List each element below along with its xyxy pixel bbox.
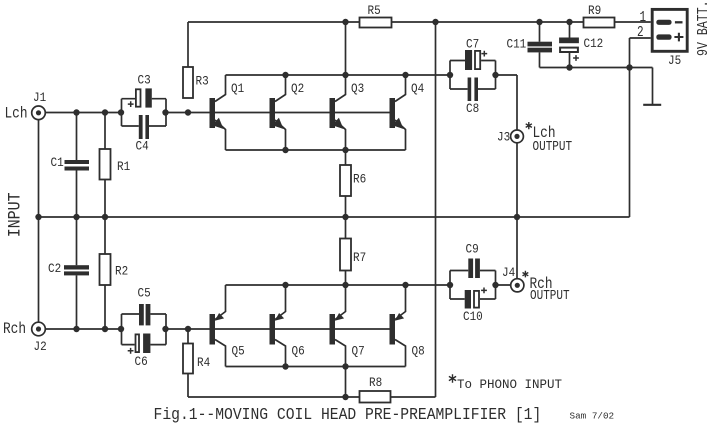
svg-text:C8: C8	[466, 101, 479, 116]
transistor Q2 (NPN)	[270, 75, 286, 150]
node bottom emitter rail / Q6	[282, 282, 288, 288]
wire C2 leads	[76, 217, 78, 329]
svg-text:J2: J2	[34, 339, 47, 354]
capacitor C12 (polarized)	[559, 38, 579, 61]
svg-text:Fig.1--MOVING COIL HEAD PRE-PR: Fig.1--MOVING COIL HEAD PRE-PREAMPLIFIER…	[154, 405, 542, 424]
svg-text:C1: C1	[51, 155, 64, 170]
ground	[643, 104, 661, 106]
svg-text:To PHONO INPUT: To PHONO INPUT	[457, 378, 563, 392]
resistor R5	[360, 18, 392, 28]
capacitor C6 (polarized)	[128, 334, 151, 354]
svg-text:Sam 7/02: Sam 7/02	[570, 410, 615, 421]
wire C5/C6 branch loop	[122, 314, 167, 345]
jack J2 (Rch input)	[32, 322, 46, 336]
node bottom rail / R8 branch	[342, 394, 348, 400]
jack J1 (Lch input)	[32, 106, 46, 120]
node Rch rail / C5 right	[162, 326, 168, 332]
svg-text:R3: R3	[196, 74, 209, 89]
wire Lch input rail	[45, 112, 390, 114]
wire R1 leads	[104, 113, 106, 218]
asterisk at phono note	[449, 374, 456, 382]
node ground rail / R6R7	[342, 214, 348, 220]
jack J3 (Lch output)	[511, 130, 524, 143]
svg-text:C6: C6	[135, 354, 148, 369]
capacitor C11	[528, 42, 553, 53]
node top rail / C12	[566, 19, 572, 25]
svg-text:Q8: Q8	[412, 344, 425, 359]
svg-text:Q6: Q6	[292, 344, 305, 359]
wire R2 leads	[104, 217, 106, 329]
svg-text:J3: J3	[497, 130, 510, 145]
svg-text:OUTPUT: OUTPUT	[533, 139, 573, 154]
node input rail / C3 right	[162, 109, 168, 115]
capacitor C9	[468, 259, 480, 279]
wire C9/C10 branch loop	[450, 271, 496, 300]
svg-text:Rch: Rch	[3, 321, 26, 338]
wire Rch input rail	[45, 328, 390, 330]
node bottom emitter rail / Q8	[402, 282, 408, 288]
svg-text:Q4: Q4	[411, 81, 424, 96]
svg-text:Q1: Q1	[231, 81, 244, 96]
wire bottom rail y=397	[188, 396, 436, 398]
svg-text:C4: C4	[136, 139, 149, 154]
svg-text:R6: R6	[353, 172, 366, 187]
transistor Q4 (NPN)	[390, 75, 406, 150]
wire R5 junction down to Q collectors	[345, 22, 347, 75]
wire collector rail to R8	[345, 367, 347, 398]
node Rch rail / C2	[73, 326, 79, 332]
node input rail / C1	[73, 109, 79, 115]
node C9 right	[492, 282, 498, 288]
capacitor C1	[65, 160, 90, 171]
svg-text:C10: C10	[463, 309, 483, 324]
battery connector J5	[652, 9, 687, 51]
node top rail / C11	[536, 19, 542, 25]
svg-text:R4: R4	[197, 355, 210, 370]
wire R3 top lead	[187, 22, 189, 67]
svg-text:Q3: Q3	[351, 81, 364, 96]
wire top emitter rail y=150	[226, 149, 406, 151]
capacitor C7 (polarized)	[465, 50, 487, 70]
wire C7/C8 to J3	[496, 75, 518, 130]
node battery minus junction	[626, 64, 632, 70]
node input rail / C3 left	[118, 109, 124, 115]
wire ground stub	[630, 68, 653, 105]
wire J3 to J4 via ground rail	[516, 143, 518, 279]
svg-text:2: 2	[637, 23, 644, 40]
node input rail / R3	[185, 109, 191, 115]
node top rail / supply drop	[432, 19, 438, 25]
svg-text:C7: C7	[466, 37, 479, 52]
node ground rail / C1C2	[73, 214, 79, 220]
transistor Q3 (NPN)	[330, 75, 346, 150]
node Rch rail / R4	[185, 326, 191, 332]
wire ground rail y=217	[39, 216, 630, 218]
resistor R7	[340, 239, 351, 271]
capacitor C8	[468, 78, 478, 102]
node ground rail / output line	[514, 214, 520, 220]
wire bottom emitter rail y=285	[226, 284, 511, 286]
capacitor C2	[64, 265, 89, 275]
svg-text:R1: R1	[117, 159, 130, 174]
wire C3/C4 branch loop	[122, 99, 167, 126]
wire battery to ground rail	[629, 68, 631, 218]
svg-text:R9: R9	[588, 3, 601, 18]
svg-text:9V BATT.: 9V BATT.	[696, 0, 708, 56]
resistor R6	[340, 165, 351, 196]
resistor R4	[183, 344, 193, 374]
wire bottom collector rail y=366.5	[226, 366, 406, 368]
svg-text:R8: R8	[369, 375, 382, 390]
svg-text:R5: R5	[368, 3, 381, 18]
svg-text:R2: R2	[115, 264, 128, 279]
jack J4 (Rch output)	[511, 279, 524, 292]
wire battery mid rail y=67.5	[540, 67, 630, 69]
svg-text:R7: R7	[353, 250, 366, 265]
transistor Q5 (PNP)	[210, 285, 226, 367]
resistor R2	[100, 254, 111, 285]
resistor R8	[360, 391, 391, 403]
svg-text:C3: C3	[138, 72, 151, 87]
node emitter rail / R6	[342, 147, 348, 153]
node bottom collector rail / R8	[342, 363, 348, 369]
svg-text:Q7: Q7	[352, 344, 365, 359]
svg-text:Q2: Q2	[291, 81, 304, 96]
svg-text:C12: C12	[584, 36, 604, 51]
resistor R3	[183, 67, 193, 98]
svg-text:Lch: Lch	[5, 106, 28, 123]
wire R6 leads	[345, 150, 347, 217]
wire C11 leads	[539, 22, 541, 68]
node C9 left	[447, 282, 453, 288]
capacitor C3 (polarized)	[128, 88, 152, 107]
wire J5 pin2 lead	[630, 38, 651, 68]
svg-text:Q5: Q5	[232, 344, 245, 359]
node input rail / R1	[102, 109, 108, 115]
node mid rail / C12	[566, 64, 572, 70]
capacitor C5	[139, 304, 150, 325]
node emitter rail / Q2	[282, 147, 288, 153]
node ground rail / R1R2	[102, 214, 108, 220]
node bottom emitter rail / R7	[342, 282, 348, 288]
node Rch rail / C5 left	[118, 326, 124, 332]
node ground rail / J1 line	[35, 214, 41, 220]
svg-text:INPUT: INPUT	[4, 192, 25, 237]
svg-text:J1: J1	[33, 90, 46, 105]
wire top collector rail y=75	[226, 74, 451, 76]
asterisk at J3	[526, 122, 532, 129]
wire C12 leads	[569, 22, 571, 68]
wire C7/C8 branch loop	[450, 61, 496, 90]
wire C1 leads	[76, 113, 78, 218]
resistor R1	[100, 149, 111, 180]
svg-text:J4: J4	[502, 265, 515, 280]
capacitor C4	[139, 115, 149, 139]
node bottom collector rail / Q6	[282, 363, 288, 369]
transistor Q7 (PNP)	[330, 285, 346, 367]
transistor Q1 (NPN)	[210, 75, 226, 150]
wire supply drop x=435.5	[435, 22, 437, 397]
svg-text:C9: C9	[466, 242, 479, 257]
svg-text:OUTPUT: OUTPUT	[530, 288, 570, 303]
node collector rail / Q4	[402, 72, 408, 78]
capacitor C10 (polarized)	[465, 288, 487, 309]
asterisk at J4	[523, 271, 529, 278]
node top rail / R5-R3	[342, 19, 348, 25]
transistor Q6 (PNP)	[270, 285, 286, 367]
wire top supply rail y=22	[188, 21, 651, 23]
transistor Q8 (PNP)	[390, 285, 406, 367]
svg-text:J5: J5	[668, 53, 681, 68]
svg-text:C5: C5	[138, 286, 151, 301]
node C7 left	[447, 72, 453, 78]
wire R7 leads	[345, 217, 347, 285]
node collector rail / Q3	[342, 72, 348, 78]
resistor R9	[584, 18, 615, 28]
node Rch rail / R2	[102, 326, 108, 332]
svg-text:C2: C2	[48, 261, 61, 276]
wire R4 leads	[187, 329, 189, 397]
node collector rail / Q2	[282, 72, 288, 78]
node C7 right	[492, 72, 498, 78]
svg-text:C11: C11	[507, 37, 527, 52]
wire J1-J2 shield line	[38, 119, 40, 322]
